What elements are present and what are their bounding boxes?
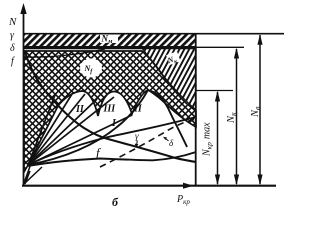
svg-text:δ: δ [10,43,15,54]
P_kr arrowhead on axis [183,183,194,189]
fan line L3 [28,94,85,165]
svg-text:б: б [112,195,119,209]
band bottom thick line [24,46,196,49]
y-axis [23,8,25,186]
curve I rising limb (dome C) [28,90,148,165]
svg-text:II: II [75,104,85,115]
corner bundle strokes [24,158,42,184]
fan line L5 [28,97,114,165]
svg-text:III: III [103,104,117,115]
shallow curve under band [25,49,105,57]
svg-text:Nкрmax: Nкрmax [202,122,214,157]
svg-text:N: N [8,16,17,28]
band bottom line extended to Nk dimension [196,46,244,48]
dimension arrow N_kr_max [215,91,220,186]
curve R (rising to border) [28,117,196,165]
fan line L6 to valley 2-3 [28,115,132,165]
dome C descending tail [148,90,187,147]
crosshatch dome region [24,51,196,172]
Nkr max level line [196,90,233,92]
x-axis [22,185,276,187]
y-axis arrowhead [20,3,26,14]
fan line L4 [28,99,97,165]
Nm label box [100,33,118,43]
Nf label ellipse [80,59,102,78]
fan line L1 to arch1 [28,95,55,165]
curve E (gamma descending envelope) [25,52,196,162]
Nk label [165,51,180,67]
fan line L2 [28,94,72,165]
dimension arrow N_k [234,48,239,186]
dashed curve delta [100,119,196,167]
curve f [28,152,196,166]
right border of plot [195,33,197,186]
Nm hatched band [24,34,196,47]
Nk hatched region [140,47,196,110]
svg-text:γ: γ [135,131,139,141]
band top line extended to Nv dimension [24,33,284,35]
svg-text:II: II [133,104,143,115]
dimension arrow N_v [257,34,262,185]
